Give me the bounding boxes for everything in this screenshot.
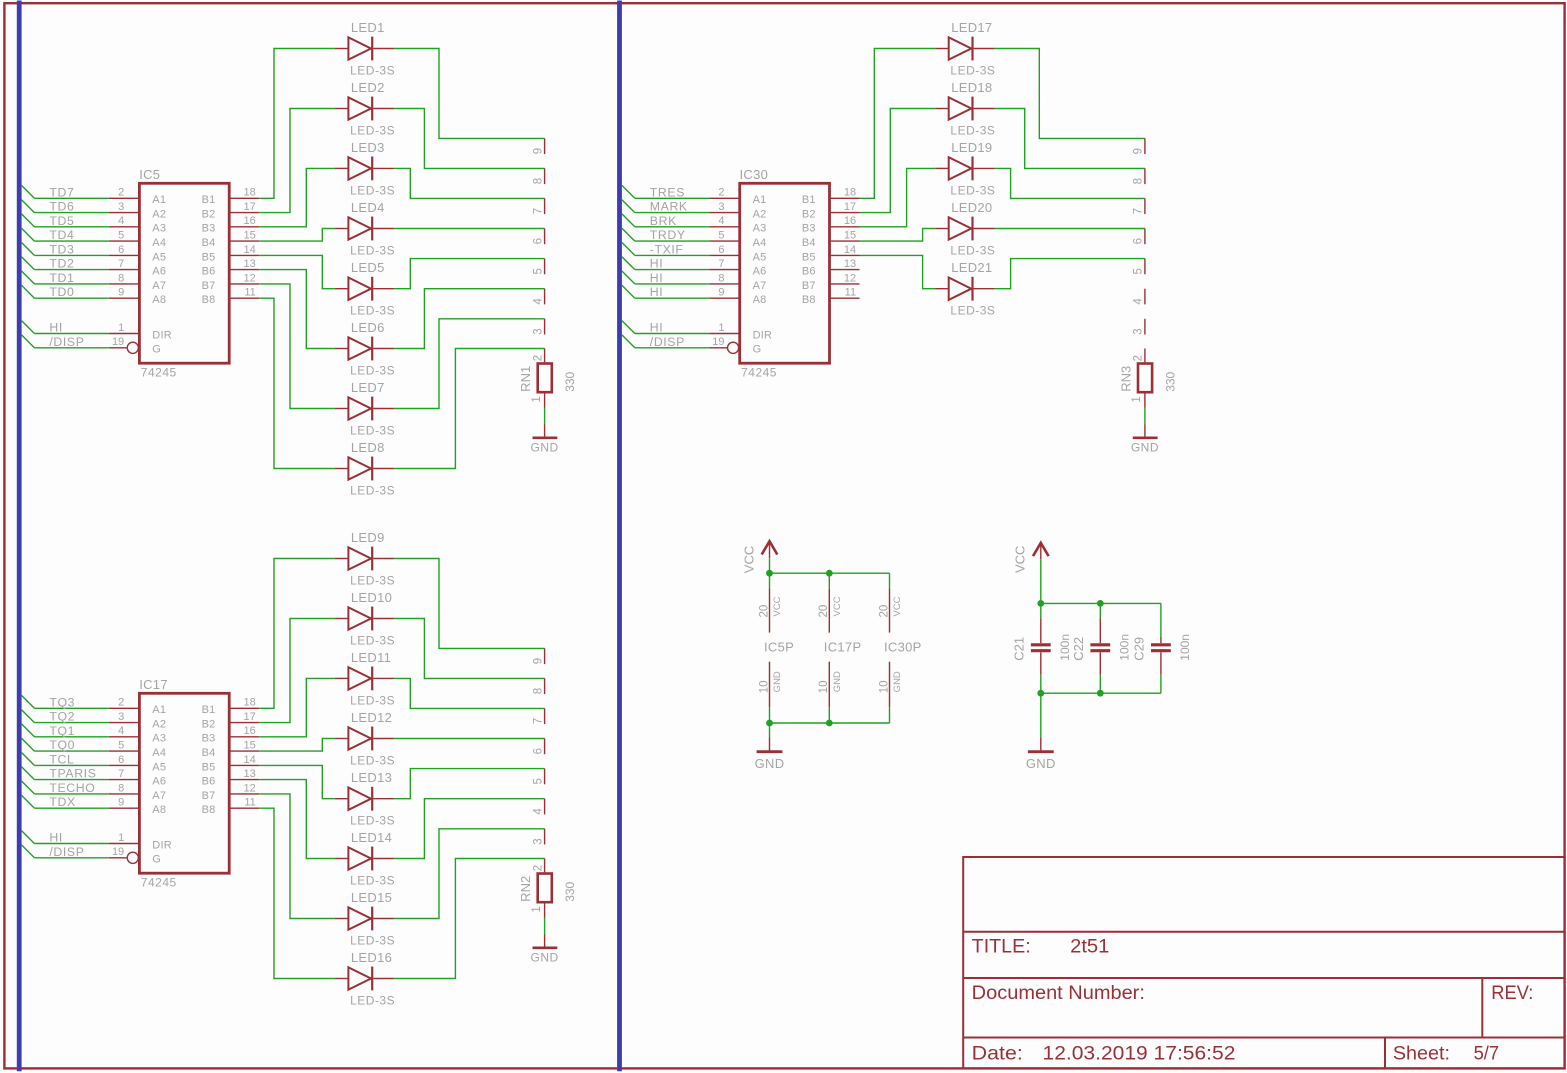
svg-text:LED-3S: LED-3S	[950, 123, 995, 137]
svg-text:HI: HI	[650, 285, 664, 299]
svg-text:LED12: LED12	[351, 710, 392, 725]
svg-text:A8: A8	[753, 294, 767, 306]
svg-text:RN2: RN2	[518, 876, 533, 902]
svg-text:TD3: TD3	[49, 242, 74, 256]
svg-text:5/7: 5/7	[1474, 1044, 1500, 1065]
svg-text:LED10: LED10	[351, 590, 392, 605]
svg-text:8: 8	[532, 688, 544, 694]
svg-text:-TXIF: -TXIF	[650, 242, 684, 256]
svg-text:B1: B1	[202, 704, 216, 716]
svg-text:A1: A1	[152, 704, 166, 716]
svg-text:3: 3	[532, 838, 544, 844]
svg-text:3: 3	[118, 711, 124, 723]
svg-text:A6: A6	[753, 266, 767, 278]
svg-text:IC5P: IC5P	[764, 639, 794, 654]
svg-text:LED19: LED19	[951, 140, 992, 155]
svg-text:C29: C29	[1132, 637, 1147, 661]
svg-text:TD7: TD7	[49, 185, 74, 199]
svg-text:15: 15	[244, 740, 256, 752]
svg-text:LED-3S: LED-3S	[350, 933, 395, 947]
svg-text:B4: B4	[802, 237, 816, 249]
svg-text:LED17: LED17	[951, 20, 992, 35]
svg-text:2: 2	[718, 187, 724, 199]
svg-text:20: 20	[878, 605, 890, 618]
svg-text:LED-3S: LED-3S	[350, 63, 395, 77]
svg-text:100n: 100n	[1117, 634, 1131, 661]
svg-text:A3: A3	[753, 223, 767, 235]
svg-text:B6: B6	[802, 266, 816, 278]
svg-text:GND: GND	[892, 671, 903, 692]
svg-text:16: 16	[244, 215, 256, 227]
svg-text:IC5: IC5	[139, 167, 160, 182]
svg-text:LED11: LED11	[351, 650, 391, 665]
svg-text:12.03.2019 17:56:52: 12.03.2019 17:56:52	[1043, 1044, 1236, 1065]
svg-text:17: 17	[244, 711, 256, 723]
svg-text:B4: B4	[202, 237, 216, 249]
svg-text:LED-3S: LED-3S	[350, 814, 395, 828]
svg-text:Date:: Date:	[972, 1044, 1023, 1065]
svg-text:4: 4	[118, 215, 124, 227]
svg-text:330: 330	[1163, 371, 1177, 391]
svg-text:2t51: 2t51	[1070, 937, 1109, 958]
svg-text:LED-3S: LED-3S	[350, 633, 395, 647]
svg-text:8: 8	[1133, 178, 1145, 184]
svg-text:LED-3S: LED-3S	[350, 573, 395, 587]
svg-text:TITLE:: TITLE:	[972, 937, 1031, 958]
svg-text:16: 16	[244, 725, 256, 737]
svg-text:TQ3: TQ3	[49, 695, 75, 709]
svg-text:A2: A2	[152, 209, 166, 221]
svg-text:GND: GND	[531, 950, 559, 964]
svg-text:DIR: DIR	[152, 329, 172, 341]
svg-text:TPARIS: TPARIS	[49, 767, 96, 781]
svg-text:3: 3	[532, 328, 544, 334]
svg-text:A1: A1	[152, 194, 166, 206]
svg-text:B2: B2	[202, 719, 216, 731]
svg-text:TQ2: TQ2	[49, 710, 75, 724]
svg-text:LED14: LED14	[351, 830, 392, 845]
svg-text:18: 18	[244, 697, 256, 709]
svg-text:LED-3S: LED-3S	[350, 993, 395, 1007]
svg-text:6: 6	[532, 748, 544, 754]
svg-text:4: 4	[118, 725, 124, 737]
svg-text:RN1: RN1	[518, 366, 533, 392]
svg-text:9: 9	[718, 287, 724, 299]
svg-text:B3: B3	[202, 223, 216, 235]
svg-text:5: 5	[718, 230, 724, 242]
svg-text:A5: A5	[152, 251, 166, 263]
svg-text:LED-3S: LED-3S	[350, 123, 395, 137]
svg-text:9: 9	[1133, 148, 1145, 154]
svg-text:G: G	[152, 854, 161, 866]
svg-text:LED-3S: LED-3S	[350, 873, 395, 887]
svg-text:17: 17	[844, 201, 856, 213]
svg-text:5: 5	[118, 230, 124, 242]
svg-text:TD0: TD0	[49, 285, 74, 299]
svg-text:LED-3S: LED-3S	[350, 423, 395, 437]
svg-text:74245: 74245	[141, 876, 177, 890]
svg-text:RN3: RN3	[1119, 366, 1134, 392]
svg-text:HI: HI	[49, 831, 63, 845]
svg-text:B7: B7	[802, 280, 816, 292]
svg-text:GND: GND	[755, 756, 785, 771]
svg-text:2: 2	[532, 355, 544, 361]
svg-text:11: 11	[244, 797, 255, 809]
svg-text:A5: A5	[152, 761, 166, 773]
svg-text:B5: B5	[802, 251, 816, 263]
svg-text:9: 9	[532, 148, 544, 154]
svg-text:A3: A3	[152, 223, 166, 235]
svg-text:C22: C22	[1071, 637, 1086, 661]
svg-text:2: 2	[1133, 355, 1145, 361]
svg-text:6: 6	[718, 244, 724, 256]
svg-text:VCC: VCC	[892, 596, 903, 616]
svg-text:TECHO: TECHO	[49, 781, 95, 795]
svg-text:12: 12	[844, 272, 856, 284]
svg-text:REV:: REV:	[1491, 983, 1533, 1004]
svg-text:C21: C21	[1011, 637, 1026, 661]
svg-text:/DISP: /DISP	[650, 335, 685, 349]
svg-text:2: 2	[532, 865, 544, 871]
svg-text:B6: B6	[202, 266, 216, 278]
svg-text:B1: B1	[202, 194, 216, 206]
svg-text:1: 1	[718, 322, 724, 334]
svg-text:LED21: LED21	[951, 260, 992, 275]
svg-text:14: 14	[844, 244, 856, 256]
svg-text:IC17P: IC17P	[824, 639, 862, 654]
svg-text:LED16: LED16	[351, 950, 392, 965]
svg-text:IC30P: IC30P	[884, 639, 922, 654]
svg-text:6: 6	[1133, 238, 1145, 244]
svg-text:A7: A7	[152, 280, 166, 292]
svg-text:LED-3S: LED-3S	[950, 243, 995, 257]
svg-text:13: 13	[244, 258, 256, 270]
svg-text:5: 5	[532, 778, 544, 784]
svg-text:LED20: LED20	[951, 200, 992, 215]
svg-text:GND: GND	[832, 671, 843, 692]
svg-text:5: 5	[532, 268, 544, 274]
svg-text:10: 10	[818, 681, 830, 694]
svg-text:A2: A2	[152, 719, 166, 731]
svg-text:LED7: LED7	[351, 380, 385, 395]
svg-text:3: 3	[1133, 328, 1145, 334]
svg-text:74245: 74245	[141, 366, 177, 380]
svg-text:A4: A4	[152, 237, 166, 249]
svg-text:3: 3	[118, 201, 124, 213]
svg-text:A7: A7	[152, 790, 166, 802]
svg-text:GND: GND	[1026, 756, 1056, 771]
svg-text:A2: A2	[753, 209, 767, 221]
svg-text:A8: A8	[152, 804, 166, 816]
svg-text:G: G	[152, 344, 161, 356]
svg-text:B5: B5	[202, 251, 216, 263]
svg-text:6: 6	[118, 244, 124, 256]
svg-text:1: 1	[531, 906, 543, 912]
svg-text:A3: A3	[152, 733, 166, 745]
svg-text:12: 12	[244, 272, 256, 284]
svg-text:HI: HI	[650, 257, 664, 271]
svg-text:TD5: TD5	[49, 214, 74, 228]
svg-text:B8: B8	[802, 294, 816, 306]
svg-text:7: 7	[532, 208, 544, 214]
svg-text:2: 2	[118, 697, 124, 709]
svg-text:LED13: LED13	[351, 770, 392, 785]
svg-text:TRES: TRES	[650, 185, 685, 199]
svg-text:330: 330	[563, 881, 577, 901]
svg-text:HI: HI	[650, 271, 664, 285]
svg-text:4: 4	[718, 215, 724, 227]
svg-text:VCC: VCC	[772, 596, 783, 616]
svg-text:TD2: TD2	[49, 257, 74, 271]
svg-text:LED5: LED5	[351, 260, 385, 275]
svg-text:LED-3S: LED-3S	[350, 243, 395, 257]
svg-text:10: 10	[758, 681, 770, 694]
svg-text:TD6: TD6	[49, 200, 74, 214]
svg-text:B6: B6	[202, 776, 216, 788]
svg-text:Sheet:: Sheet:	[1393, 1044, 1450, 1065]
svg-text:LED9: LED9	[351, 530, 385, 545]
svg-text:Document Number:: Document Number:	[972, 983, 1145, 1004]
svg-text:7: 7	[118, 768, 124, 780]
svg-text:B3: B3	[202, 733, 216, 745]
svg-text:7: 7	[118, 258, 124, 270]
svg-text:A6: A6	[152, 266, 166, 278]
svg-text:100n: 100n	[1178, 634, 1192, 661]
svg-text:74245: 74245	[741, 366, 777, 380]
svg-text:TRDY: TRDY	[650, 228, 686, 242]
svg-text:LED15: LED15	[351, 890, 392, 905]
svg-text:1: 1	[1131, 396, 1143, 402]
svg-text:13: 13	[844, 258, 856, 270]
svg-text:13: 13	[244, 768, 256, 780]
svg-text:B7: B7	[202, 280, 216, 292]
svg-text:1: 1	[118, 322, 124, 334]
svg-text:B5: B5	[202, 761, 216, 773]
svg-text:A8: A8	[152, 294, 166, 306]
svg-text:1: 1	[118, 832, 124, 844]
svg-text:330: 330	[563, 371, 577, 391]
svg-text:12: 12	[244, 782, 256, 794]
svg-text:LED-3S: LED-3S	[350, 693, 395, 707]
svg-text:LED-3S: LED-3S	[950, 183, 995, 197]
svg-text:HI: HI	[49, 321, 63, 335]
svg-text:8: 8	[532, 178, 544, 184]
svg-text:7: 7	[718, 258, 724, 270]
svg-text:15: 15	[244, 230, 256, 242]
svg-text:9: 9	[118, 797, 124, 809]
svg-text:A4: A4	[753, 237, 767, 249]
svg-text:19: 19	[112, 846, 124, 858]
svg-text:100n: 100n	[1058, 634, 1072, 661]
svg-text:GND: GND	[531, 440, 559, 454]
svg-text:DIR: DIR	[152, 839, 172, 851]
svg-text:LED2: LED2	[351, 80, 385, 95]
svg-text:8: 8	[118, 782, 124, 794]
svg-text:DIR: DIR	[753, 329, 773, 341]
svg-text:LED-3S: LED-3S	[950, 63, 995, 77]
svg-text:LED-3S: LED-3S	[350, 483, 395, 497]
svg-text:VCC: VCC	[832, 596, 843, 616]
svg-text:LED-3S: LED-3S	[350, 183, 395, 197]
svg-text:8: 8	[718, 272, 724, 284]
svg-text:6: 6	[118, 754, 124, 766]
svg-text:LED6: LED6	[351, 320, 385, 335]
svg-text:MARK: MARK	[650, 200, 688, 214]
svg-text:B2: B2	[802, 209, 816, 221]
svg-text:8: 8	[118, 272, 124, 284]
svg-text:7: 7	[532, 718, 544, 724]
svg-text:7: 7	[1133, 208, 1145, 214]
svg-text:18: 18	[244, 187, 256, 199]
svg-text:4: 4	[532, 808, 544, 815]
svg-text:/DISP: /DISP	[49, 335, 84, 349]
svg-text:19: 19	[112, 336, 124, 348]
svg-text:B4: B4	[202, 747, 216, 759]
svg-text:LED-3S: LED-3S	[350, 304, 395, 318]
svg-text:TQ0: TQ0	[49, 738, 75, 752]
svg-text:TD1: TD1	[49, 271, 74, 285]
svg-text:18: 18	[844, 187, 856, 199]
svg-text:B3: B3	[802, 223, 816, 235]
svg-text:TD4: TD4	[49, 228, 74, 242]
svg-text:G: G	[753, 344, 762, 356]
svg-text:A7: A7	[753, 280, 767, 292]
svg-text:IC17: IC17	[139, 677, 168, 692]
svg-text:9: 9	[532, 658, 544, 664]
svg-text:TQ1: TQ1	[49, 724, 75, 738]
svg-text:9: 9	[118, 287, 124, 299]
svg-text:LED8: LED8	[351, 440, 385, 455]
svg-text:5: 5	[1133, 268, 1145, 274]
svg-text:HI: HI	[650, 321, 664, 335]
svg-text:14: 14	[244, 244, 256, 256]
svg-text:LED1: LED1	[351, 20, 385, 35]
svg-text:BRK: BRK	[650, 214, 677, 228]
svg-text:B8: B8	[202, 294, 216, 306]
svg-text:LED-3S: LED-3S	[350, 363, 395, 377]
svg-text:20: 20	[818, 605, 830, 618]
svg-text:A1: A1	[753, 194, 767, 206]
svg-text:10: 10	[878, 681, 890, 694]
svg-text:5: 5	[118, 740, 124, 752]
svg-text:11: 11	[845, 287, 856, 299]
svg-text:14: 14	[244, 754, 256, 766]
svg-text:11: 11	[244, 287, 255, 299]
svg-text:19: 19	[712, 336, 724, 348]
svg-text:2: 2	[118, 187, 124, 199]
svg-text:GND: GND	[1131, 440, 1159, 454]
svg-text:B2: B2	[202, 209, 216, 221]
svg-text:LED18: LED18	[951, 80, 992, 95]
svg-text:IC30: IC30	[740, 167, 769, 182]
svg-text:GND: GND	[772, 671, 783, 692]
svg-text:LED3: LED3	[351, 140, 385, 155]
svg-text:6: 6	[532, 238, 544, 244]
svg-text:LED4: LED4	[351, 200, 385, 215]
svg-text:4: 4	[532, 298, 544, 305]
svg-text:4: 4	[1133, 298, 1145, 305]
svg-text:1: 1	[531, 396, 543, 402]
svg-text:LED-3S: LED-3S	[350, 753, 395, 767]
svg-text:A6: A6	[152, 776, 166, 788]
svg-text:VCC: VCC	[741, 546, 756, 573]
svg-text:B8: B8	[202, 804, 216, 816]
svg-text:16: 16	[844, 215, 856, 227]
svg-text:/DISP: /DISP	[49, 845, 84, 859]
svg-text:TDX: TDX	[49, 795, 75, 809]
svg-text:15: 15	[844, 230, 856, 242]
svg-text:TCL: TCL	[49, 752, 74, 766]
svg-text:20: 20	[758, 605, 770, 618]
svg-text:LED-3S: LED-3S	[950, 304, 995, 318]
svg-text:VCC: VCC	[1013, 546, 1028, 573]
svg-text:A4: A4	[152, 747, 166, 759]
svg-text:B1: B1	[802, 194, 816, 206]
svg-text:3: 3	[718, 201, 724, 213]
svg-text:A5: A5	[753, 251, 767, 263]
svg-text:B7: B7	[202, 790, 216, 802]
svg-text:17: 17	[244, 201, 256, 213]
